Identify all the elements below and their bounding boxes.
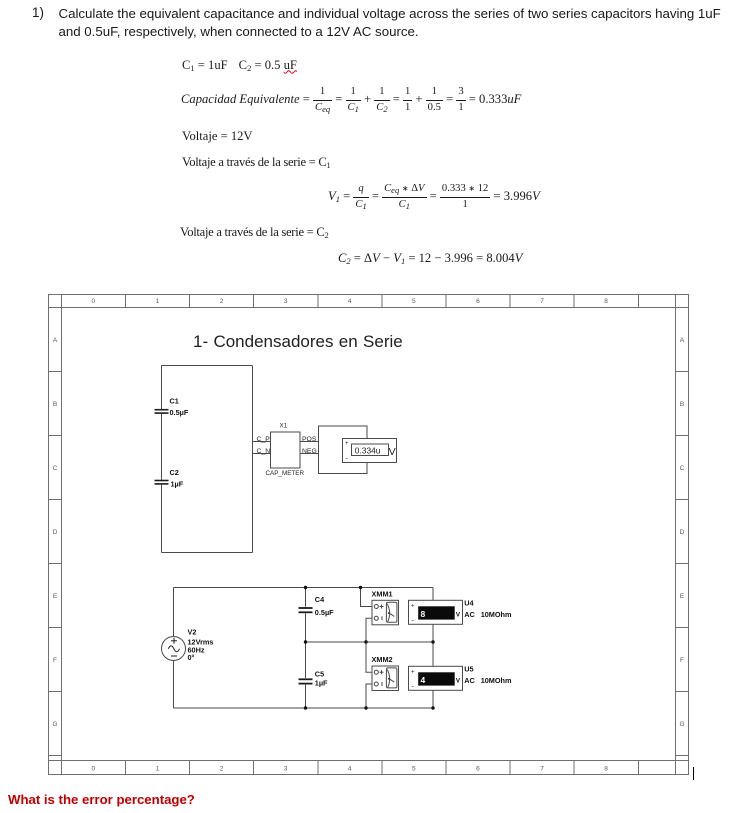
svg-text:1µF: 1µF [315, 678, 328, 687]
svg-text:0.5µF: 0.5µF [315, 608, 334, 617]
svg-text:0: 0 [91, 766, 95, 773]
svg-text:5: 5 [412, 766, 416, 773]
svg-text:AC: AC [464, 676, 475, 685]
svg-text:10MOhm: 10MOhm [481, 676, 512, 685]
svg-text:8: 8 [604, 766, 608, 773]
svg-text:0.334u: 0.334u [355, 445, 381, 455]
svg-text:D: D [680, 529, 685, 536]
svg-text:0°: 0° [188, 653, 195, 662]
svg-text:A: A [53, 337, 58, 344]
svg-text:5: 5 [412, 298, 416, 305]
svg-text:C_P: C_P [257, 436, 271, 443]
svg-text:E: E [53, 593, 58, 600]
svg-text:10MOhm: 10MOhm [481, 610, 512, 619]
svg-text:B: B [680, 401, 684, 408]
svg-text:3: 3 [284, 298, 288, 305]
svg-text:C4: C4 [315, 595, 325, 604]
svg-text:C: C [53, 465, 58, 472]
svg-text:B: B [53, 401, 57, 408]
svg-text:+: + [411, 603, 415, 609]
svg-text:G: G [52, 721, 57, 728]
svg-text:4: 4 [421, 675, 426, 685]
svg-text:NEG: NEG [302, 448, 317, 455]
svg-text:CAP_METER: CAP_METER [266, 470, 305, 477]
svg-text:A: A [680, 337, 685, 344]
svg-text:6: 6 [476, 766, 480, 773]
svg-text:0.5µF: 0.5µF [170, 408, 189, 417]
svg-text:C_N: C_N [257, 448, 271, 455]
svg-text:2: 2 [220, 766, 224, 773]
svg-text:0: 0 [91, 298, 95, 305]
svg-text:8: 8 [604, 298, 608, 305]
svg-text:7: 7 [540, 298, 544, 305]
svg-text:X1: X1 [280, 423, 288, 430]
svg-text:F: F [53, 657, 57, 664]
svg-text:F: F [680, 657, 684, 664]
svg-text:3: 3 [284, 766, 288, 773]
svg-text:4: 4 [348, 766, 352, 773]
svg-text:2: 2 [220, 298, 224, 305]
svg-text:G: G [679, 721, 684, 728]
svg-text:E: E [680, 593, 685, 600]
svg-text:XMM1: XMM1 [372, 589, 393, 598]
svg-text:V: V [456, 612, 461, 619]
svg-text:V: V [456, 678, 461, 685]
svg-text:XMM2: XMM2 [372, 655, 393, 664]
svg-text:+: + [411, 669, 415, 675]
svg-text:U4: U4 [464, 599, 474, 608]
svg-text:6: 6 [476, 298, 480, 305]
svg-text:C2: C2 [170, 468, 179, 477]
svg-text:POS: POS [302, 436, 317, 443]
svg-text:1: 1 [156, 298, 160, 305]
svg-text:8: 8 [421, 609, 426, 619]
svg-text:U5: U5 [464, 665, 473, 674]
svg-text:C: C [680, 465, 685, 472]
svg-text:D: D [53, 529, 58, 536]
svg-text:V2: V2 [188, 627, 197, 636]
svg-text:+: + [345, 441, 349, 447]
svg-text:7: 7 [540, 766, 544, 773]
svg-text:V: V [389, 446, 396, 458]
svg-text:1: 1 [156, 766, 160, 773]
svg-text:1µF: 1µF [171, 479, 184, 488]
svg-text:C1: C1 [170, 397, 179, 406]
svg-text:C5: C5 [315, 669, 324, 678]
svg-text:4: 4 [348, 298, 352, 305]
svg-text:1- Condensadores en Serie: 1- Condensadores en Serie [193, 332, 403, 351]
svg-text:AC: AC [464, 610, 475, 619]
